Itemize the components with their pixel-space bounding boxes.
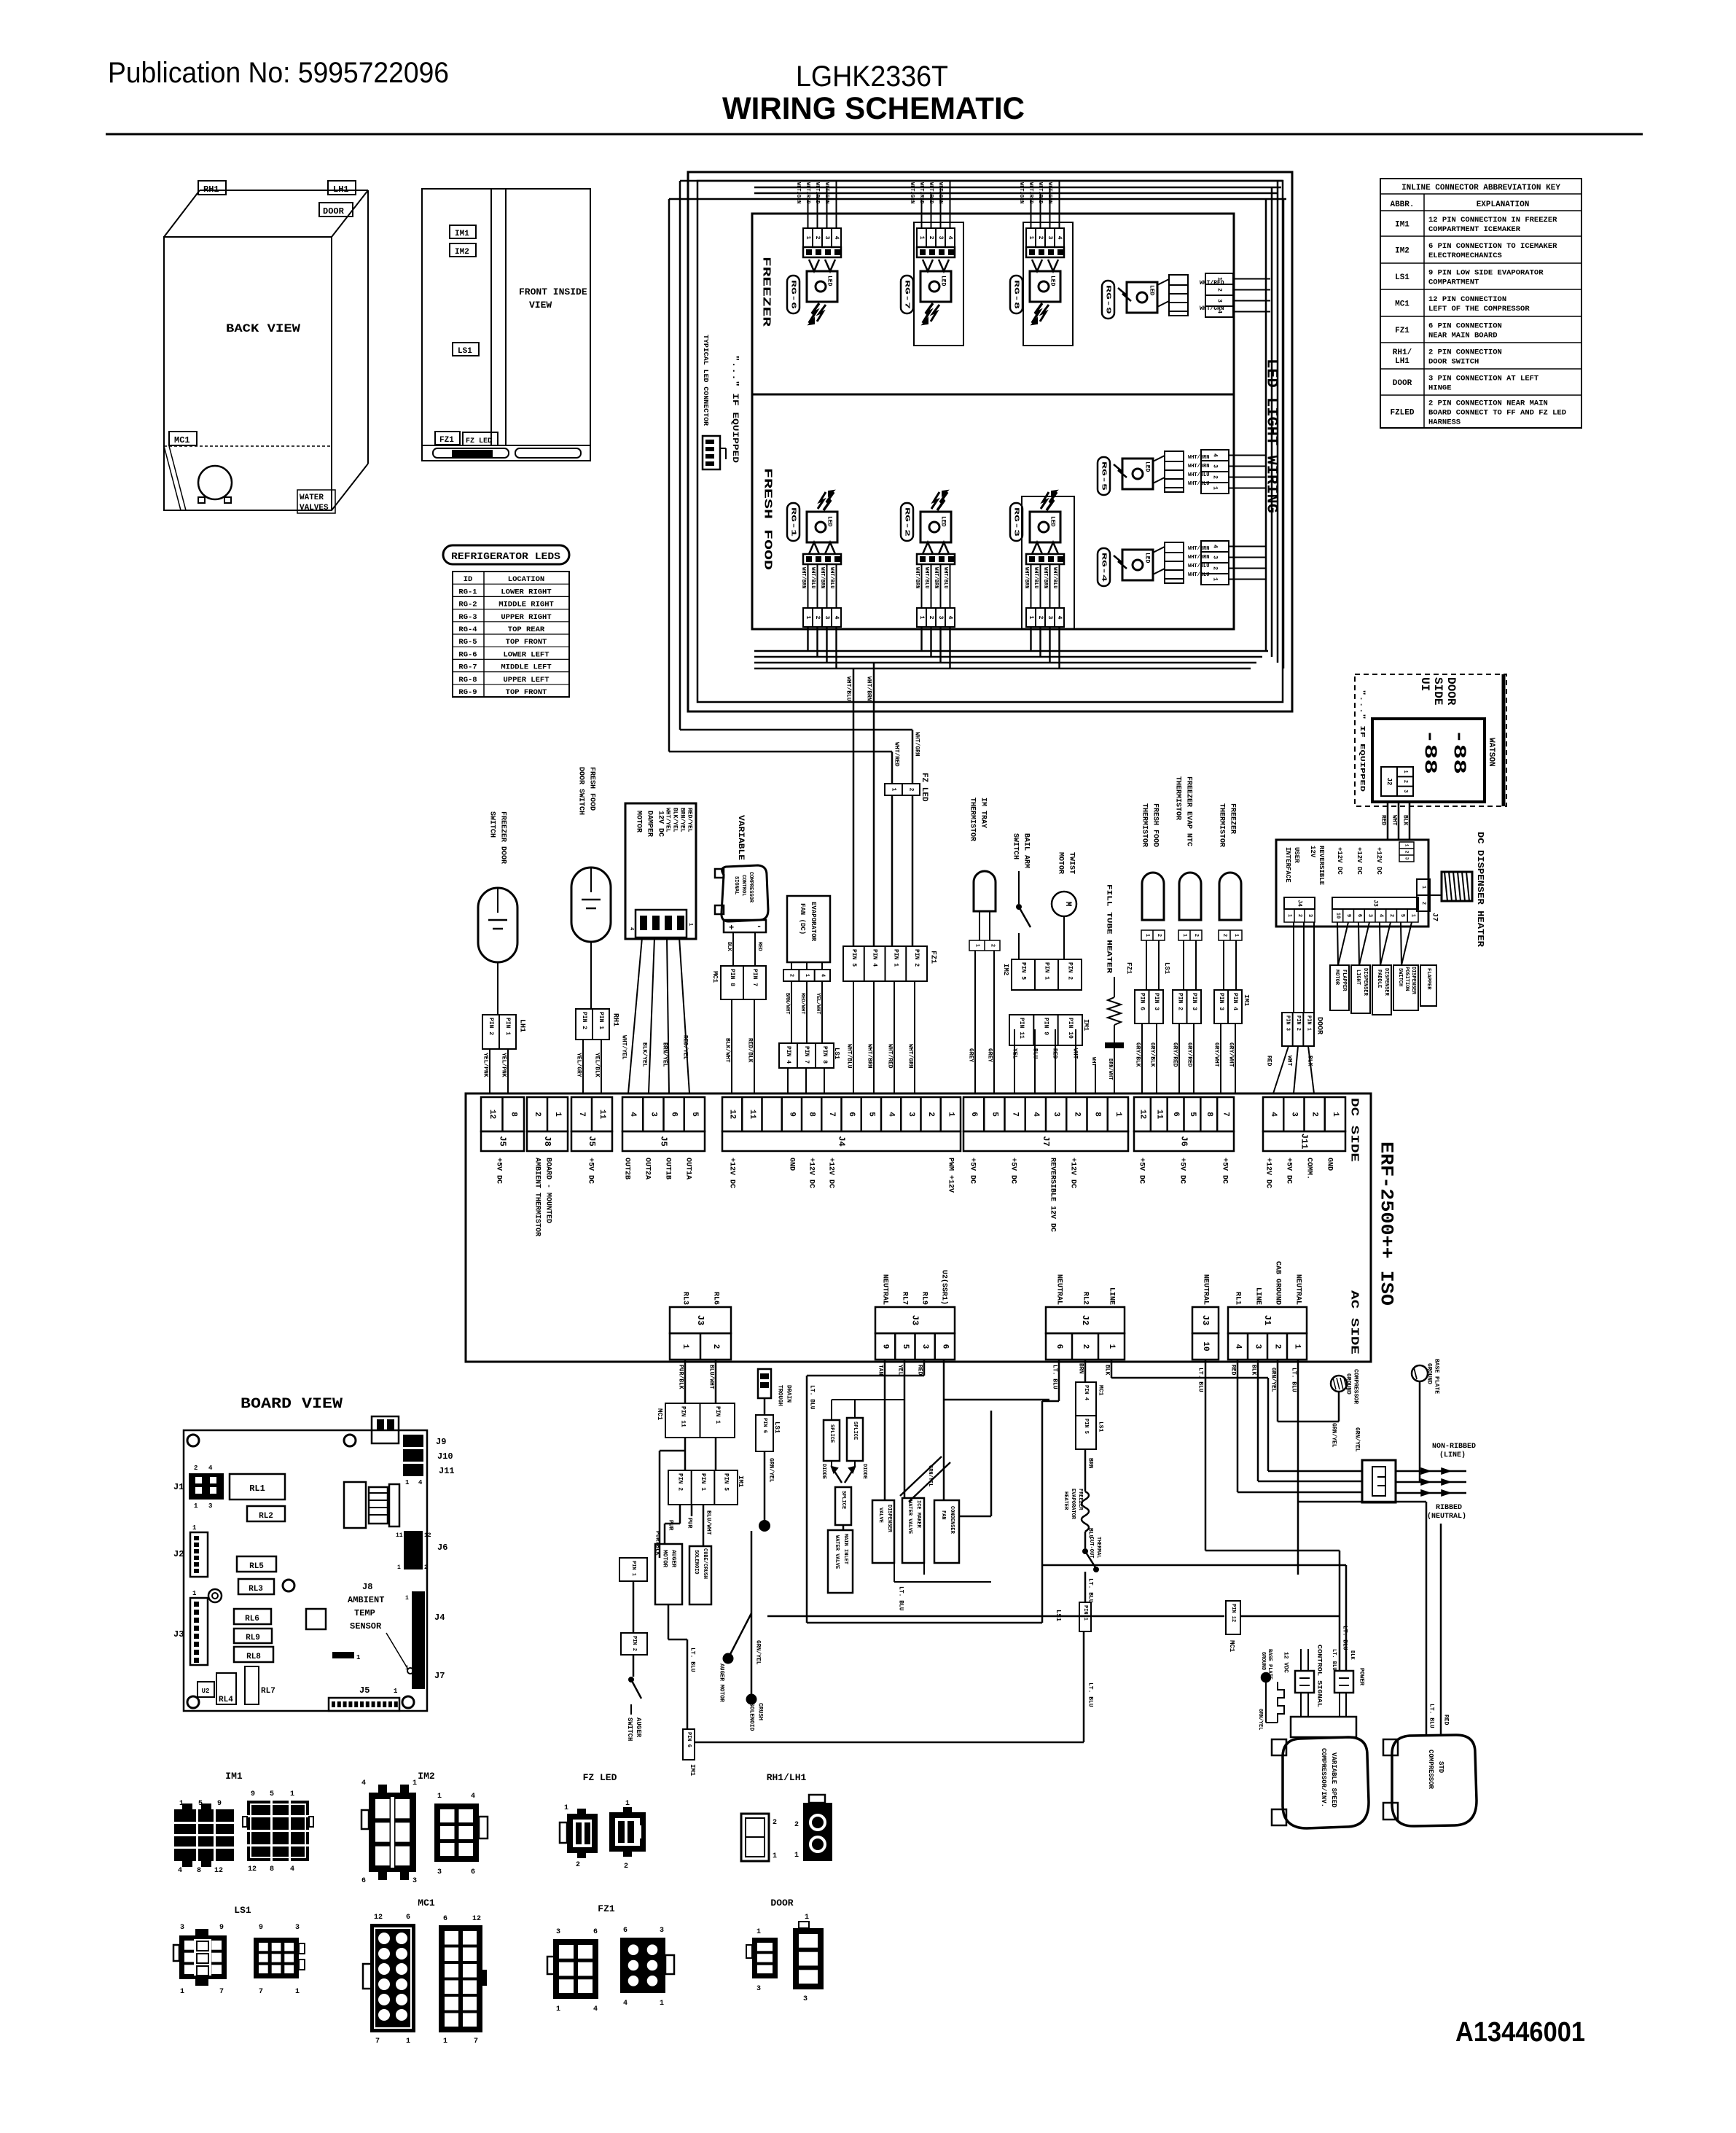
board J5 connector [329, 1698, 399, 1711]
svg-text:7: 7 [827, 1112, 836, 1117]
svg-text:NEUTRAL: NEUTRAL [881, 1274, 889, 1305]
led light wiring inner frame [697, 181, 1283, 702]
connector J3 (SSR) [875, 1307, 955, 1333]
svg-text:RL6: RL6 [245, 1615, 259, 1623]
compressor ground symbol [1331, 1376, 1347, 1392]
svg-text:8: 8 [270, 1865, 274, 1873]
evaporator fan box [787, 896, 830, 962]
svg-text:LS1: LS1 [234, 1905, 251, 1916]
svg-text:COMPARTMENT ICEMAKER: COMPARTMENT ICEMAKER [1428, 225, 1521, 234]
svg-text:BLK: BLK [1307, 1056, 1313, 1066]
led wiring bottom bundle [754, 650, 1268, 652]
svg-text:NEUTRAL: NEUTRAL [1294, 1274, 1302, 1305]
main board outline [466, 1093, 1371, 1362]
svg-text:SIGNAL: SIGNAL [733, 876, 739, 894]
board relay RL1 [230, 1474, 285, 1500]
svg-text:+5V DC: +5V DC [1221, 1158, 1229, 1184]
svg-text:1: 1 [556, 2005, 560, 2013]
svg-text:DISPENSER: DISPENSER [886, 1505, 892, 1533]
svg-text:WATSON: WATSON [1487, 738, 1495, 767]
svg-text:HINGE: HINGE [1428, 384, 1452, 393]
label FZ1 [435, 432, 460, 445]
variable compressor control assembly [1262, 1673, 1270, 1682]
connector J6 [1134, 1097, 1234, 1131]
svg-text:PIN 1: PIN 1 [892, 949, 899, 967]
pinout MC1 socket [439, 1925, 482, 2032]
svg-text:2: 2 [1072, 1112, 1081, 1117]
svg-text:COMM.: COMM. [1305, 1158, 1313, 1179]
svg-text:RG-6: RG-6 [458, 650, 477, 659]
svg-text:6 PIN CONNECTION TO ICEMAKER: 6 PIN CONNECTION TO ICEMAKER [1428, 242, 1557, 251]
svg-text:WHT/GRN: WHT/GRN [937, 182, 943, 203]
svg-text:NEUTRAL: NEUTRAL [1055, 1274, 1063, 1305]
svg-text:"..." IF EQUIPPED: "..." IF EQUIPPED [1358, 690, 1366, 792]
svg-text:3: 3 [920, 1344, 929, 1349]
svg-text:COMPRESSOR: COMPRESSOR [1427, 1750, 1434, 1790]
svg-text:9: 9 [1345, 914, 1351, 917]
door side ui dashed box [1355, 674, 1506, 806]
svg-text:AUGER: AUGER [635, 1717, 642, 1738]
svg-text:J5: J5 [587, 1136, 597, 1146]
svg-text:DOOR: DOOR [1315, 1017, 1323, 1034]
svg-text:RG-2: RG-2 [904, 507, 911, 537]
svg-text:OUT2B: OUT2B [623, 1158, 631, 1179]
pin 2 box auger switch [621, 1633, 647, 1655]
pinout LS1 socket [254, 1938, 299, 1978]
svg-text:MOTOR: MOTOR [1334, 970, 1340, 986]
svg-text:PIN 1: PIN 1 [504, 1018, 511, 1035]
damper motor box [625, 803, 696, 939]
svg-text:TROUGH: TROUGH [777, 1385, 783, 1406]
svg-text:3: 3 [803, 1995, 808, 2003]
svg-text:2: 2 [814, 616, 821, 620]
svg-text:WHT/GRN: WHT/GRN [909, 182, 915, 203]
condenser fan [934, 1500, 959, 1563]
svg-text:WHT/BRN: WHT/BRN [1188, 464, 1209, 469]
svg-text:WHT/BLU: WHT/BLU [923, 567, 929, 588]
svg-text:RG-9: RG-9 [458, 688, 477, 697]
svg-text:FZ1: FZ1 [1125, 962, 1133, 975]
svg-text:RED: RED [756, 942, 762, 951]
svg-text:RED: RED [1230, 1365, 1237, 1376]
svg-text:1: 1 [1286, 914, 1292, 917]
svg-text:2: 2 [711, 1344, 720, 1349]
svg-text:POSITION: POSITION [1404, 967, 1409, 991]
dispenser valve [872, 1500, 894, 1563]
svg-text:BLK/WHT: BLK/WHT [724, 1038, 731, 1063]
label RG-3 [1010, 503, 1023, 541]
svg-text:VARIABLE: VARIABLE [736, 815, 745, 860]
svg-text:BACK VIEW: BACK VIEW [226, 322, 300, 335]
svg-text:J9: J9 [436, 1437, 446, 1447]
svg-text:WHT: WHT [1286, 1056, 1293, 1066]
board U2 [198, 1682, 214, 1697]
svg-text:MOTOR: MOTOR [1057, 852, 1065, 874]
board J3 connector [190, 1598, 208, 1665]
svg-text:LT. BLU: LT. BLU [809, 1385, 816, 1410]
svg-text:PIN 1: PIN 1 [1082, 1605, 1088, 1621]
svg-text:+12V DC: +12V DC [1356, 847, 1363, 875]
board J4 J7 connector [412, 1591, 425, 1689]
svg-text:PIN 2: PIN 2 [1067, 962, 1074, 980]
svg-text:2: 2 [576, 1861, 580, 1869]
svg-text:4: 4 [947, 236, 953, 240]
board mount holes [187, 1435, 199, 1446]
svg-text:POWER: POWER [1358, 1668, 1365, 1685]
led module RG-2 wires [921, 564, 923, 608]
svg-text:J6: J6 [437, 1543, 447, 1553]
svg-text:2: 2 [789, 974, 794, 977]
label RG-7 [901, 276, 913, 313]
svg-text:BLK: BLK [1402, 815, 1409, 826]
svg-text:SWITCH: SWITCH [1012, 833, 1020, 859]
svg-text:PIN 11: PIN 11 [679, 1406, 686, 1427]
svg-text:1: 1 [681, 1344, 689, 1349]
svg-text:EVAPORATOR: EVAPORATOR [1070, 1489, 1076, 1520]
svg-text:J7: J7 [434, 1671, 445, 1681]
svg-text:BOARD - MOUNTED: BOARD - MOUNTED [544, 1158, 552, 1223]
svg-text:3: 3 [1402, 789, 1408, 792]
svg-text:PIN 4: PIN 4 [872, 949, 878, 967]
svg-text:11: 11 [1154, 1110, 1163, 1120]
svg-text:+5V DC: +5V DC [1178, 1158, 1186, 1184]
svg-text:AUGER: AUGER [670, 1550, 677, 1567]
main inlet water valve [828, 1530, 853, 1593]
svg-text:1: 1 [1233, 934, 1239, 937]
svg-text:BOARD VIEW: BOARD VIEW [241, 1396, 343, 1413]
pinout RH1/LH1 plug [741, 1814, 769, 1861]
svg-text:IM2: IM2 [455, 248, 469, 257]
svg-text:PIN 7: PIN 7 [803, 1046, 810, 1064]
svg-text:3: 3 [1404, 857, 1409, 860]
pinout LS1 plug [179, 1935, 227, 1979]
svg-text:+5V DC: +5V DC [969, 1158, 977, 1184]
svg-text:3: 3 [660, 1927, 664, 1935]
svg-text:RH1: RH1 [611, 1013, 619, 1026]
svg-text:2: 2 [1273, 1344, 1282, 1349]
svg-text:M: M [1063, 902, 1072, 907]
svg-text:2: 2 [1310, 1112, 1319, 1117]
svg-text:YEL/WHT: YEL/WHT [815, 993, 821, 1014]
svg-text:PIN 4: PIN 4 [1083, 1385, 1089, 1400]
svg-text:J11: J11 [1299, 1134, 1310, 1150]
svg-text:WHT/YEL: WHT/YEL [665, 808, 671, 832]
svg-text:WHT: WHT [1391, 815, 1398, 826]
svg-text:2: 2 [1156, 934, 1162, 937]
header rule [106, 133, 1643, 136]
connector J7 [963, 1097, 1128, 1131]
svg-text:PIN 4: PIN 4 [1232, 993, 1238, 1010]
pin 12 mc1 inline [767, 1615, 1224, 1618]
svg-text:IM2: IM2 [418, 1771, 435, 1782]
svg-text:1: 1 [295, 1988, 300, 1996]
variable speed compressor [1283, 1737, 1369, 1828]
flapper assembly wires [1337, 922, 1338, 965]
led module RG-5 body [1122, 459, 1153, 489]
svg-text:7: 7 [474, 2038, 478, 2046]
svg-text:NEUTRAL: NEUTRAL [1202, 1274, 1210, 1305]
svg-text:WHT/RED: WHT/RED [805, 182, 810, 203]
svg-text:DAMPER: DAMPER [646, 811, 654, 837]
wires fz led to fz1 [891, 795, 894, 946]
svg-text:PIN 2: PIN 2 [913, 949, 920, 967]
connector J5 (second) [571, 1097, 612, 1131]
svg-text:1: 1 [413, 1779, 417, 1787]
led module RG-3 body [1030, 512, 1060, 542]
svg-text:YEL/GRY: YEL/GRY [576, 1053, 582, 1077]
svg-text:LINE: LINE [1108, 1287, 1116, 1305]
led module RG-1 wires [808, 564, 809, 608]
svg-text:PWM +12V: PWM +12V [947, 1158, 955, 1193]
svg-text:3: 3 [649, 1112, 657, 1117]
svg-text:RG-6: RG-6 [790, 280, 797, 309]
svg-text:5: 5 [198, 1800, 203, 1808]
damper motor wires [628, 937, 642, 1093]
svg-text:1: 1 [1331, 1112, 1340, 1117]
typical led connector symbol [703, 436, 720, 469]
svg-text:1: 1 [660, 2000, 664, 2008]
svg-text:DOOR: DOOR [323, 206, 345, 217]
svg-text:+5V DC: +5V DC [587, 1158, 595, 1184]
svg-text:FREEZER DOOR: FREEZER DOOR [499, 811, 507, 864]
svg-text:MOTOR: MOTOR [635, 811, 643, 832]
led wiring bottom wrap wires [669, 751, 892, 753]
svg-text:ABBR.: ABBR. [1390, 200, 1414, 209]
svg-text:2: 2 [928, 616, 934, 620]
svg-text:WHT/RED: WHT/RED [814, 182, 820, 203]
svg-text:USER: USER [1293, 847, 1300, 863]
svg-text:2: 2 [1037, 236, 1044, 240]
svg-text:RG-8: RG-8 [458, 676, 477, 685]
svg-text:RL7: RL7 [901, 1292, 909, 1305]
svg-text:7: 7 [259, 1988, 263, 1996]
svg-text:+: + [729, 923, 734, 933]
svg-text:SWITCH: SWITCH [1397, 968, 1403, 986]
led module RG-6 connector [803, 228, 841, 247]
svg-text:RL3: RL3 [249, 1585, 263, 1594]
svg-text:WHT/GRN: WHT/GRN [1018, 182, 1024, 203]
svg-text:6: 6 [361, 1877, 366, 1885]
svg-text:J10: J10 [437, 1451, 453, 1462]
label RG-5 [1098, 457, 1110, 495]
svg-text:J8: J8 [542, 1136, 552, 1146]
svg-text:1: 1 [192, 1524, 197, 1532]
svg-text:12: 12 [248, 1865, 257, 1873]
flapper motor box [1330, 965, 1349, 1010]
svg-text:PIN 10: PIN 10 [1067, 1018, 1074, 1039]
svg-text:12V DC: 12V DC [657, 811, 665, 837]
svg-text:5: 5 [690, 1112, 699, 1117]
svg-text:THERMAL: THERMAL [1095, 1537, 1101, 1558]
svg-text:1: 1 [756, 1928, 761, 1936]
connector J8 [527, 1097, 568, 1131]
connector J4 [722, 1097, 961, 1131]
svg-text:RG-4: RG-4 [458, 625, 477, 634]
svg-text:FRESH FOOD: FRESH FOOD [1152, 803, 1160, 847]
svg-text:GND: GND [788, 1158, 796, 1171]
svg-text:WHT/RED: WHT/RED [1037, 182, 1043, 203]
svg-text:-88: -88 [1420, 729, 1439, 774]
svg-text:MAIN INLET: MAIN INLET [842, 1534, 848, 1564]
svg-text:BRN: BRN [1078, 1363, 1084, 1374]
svg-text:YEL: YEL [897, 1365, 904, 1376]
svg-text:MC1: MC1 [1228, 1640, 1235, 1653]
svg-text:TAN: TAN [877, 1365, 884, 1376]
svg-text:MC1: MC1 [418, 1898, 435, 1908]
refrigerator leds table [453, 572, 569, 697]
led module RG-5 block [1201, 450, 1229, 494]
svg-text:RED: RED [1380, 815, 1387, 826]
svg-text:1: 1 [1402, 771, 1408, 773]
svg-text:LS1: LS1 [773, 1422, 781, 1434]
svg-text:GROUND: GROUND [1260, 1652, 1266, 1670]
svg-text:WIRING SCHEMATIC: WIRING SCHEMATIC [722, 91, 1025, 126]
svg-text:1: 1 [804, 974, 810, 977]
svg-text:AC SIDE: AC SIDE [1348, 1290, 1361, 1354]
svg-text:LED: LED [940, 276, 947, 286]
svg-text:BLK: BLK [726, 942, 732, 951]
cube crush solenoid box [689, 1546, 711, 1604]
svg-text:WHT/BRN: WHT/BRN [1042, 567, 1048, 588]
svg-text:PUR: PUR [668, 1520, 674, 1531]
svg-text:HARNESS: HARNESS [1428, 418, 1461, 427]
svg-text:2: 2 [926, 1112, 935, 1117]
svg-text:LT. BLU: LT. BLU [1291, 1368, 1297, 1392]
connector J2 [1046, 1307, 1125, 1333]
svg-text:SPLICE: SPLICE [829, 1424, 834, 1443]
svg-text:2: 2 [1420, 902, 1426, 905]
svg-text:MIDDLE RIGHT: MIDDLE RIGHT [498, 601, 554, 609]
board J2 connector [190, 1532, 208, 1577]
svg-text:GRY/RED: GRY/RED [1172, 1042, 1178, 1067]
svg-text:FREEZER: FREEZER [760, 257, 773, 327]
svg-text:DOOR: DOOR [770, 1898, 793, 1908]
pinout DOOR plug [752, 1938, 778, 1978]
svg-text:CUT-OUT: CUT-OUT [1088, 1537, 1094, 1558]
svg-text:2: 2 [1212, 566, 1219, 570]
svg-text:WHT/BLU: WHT/BLU [1033, 567, 1039, 588]
svg-text:CONDENSER: CONDENSER [949, 1506, 955, 1535]
svg-text:8: 8 [509, 1112, 517, 1117]
svg-text:2: 2 [1404, 851, 1409, 854]
svg-text:1: 1 [1028, 616, 1034, 620]
svg-text:1: 1 [394, 1688, 398, 1695]
svg-text:1: 1 [564, 1804, 568, 1812]
dispenser position switch box [1393, 965, 1418, 1010]
svg-text:2: 2 [624, 1863, 628, 1871]
board relay RL3 [238, 1579, 274, 1594]
svg-text:J1: J1 [1262, 1315, 1272, 1325]
wires J2 group [1058, 1360, 1060, 1401]
svg-text:1: 1 [918, 616, 925, 620]
board J6 connector [404, 1531, 423, 1569]
svg-text:1: 1 [1212, 486, 1219, 490]
svg-text:3: 3 [437, 1868, 442, 1876]
svg-text:RL3: RL3 [681, 1292, 689, 1305]
led module RG-7 body [917, 247, 955, 257]
led module RG-2 lightning [937, 492, 947, 510]
front inside view box [422, 189, 590, 461]
svg-text:3: 3 [208, 1502, 212, 1510]
power cord plug [1362, 1460, 1396, 1502]
svg-text:WHT/BLU: WHT/BLU [846, 1044, 853, 1069]
svg-text:UI: UI [1418, 677, 1431, 691]
svg-text:GRY/BLK: GRY/BLK [1135, 1042, 1141, 1067]
svg-text:PIN 9: PIN 9 [1043, 1018, 1049, 1035]
svg-text:GRN/YEL: GRN/YEL [768, 1458, 775, 1483]
svg-text:WHT/GRN: WHT/GRN [914, 732, 920, 757]
svg-text:9: 9 [219, 1924, 224, 1932]
svg-text:PIN 1: PIN 1 [700, 1473, 706, 1491]
svg-text:PUR: PUR [687, 1518, 693, 1529]
svg-text:3: 3 [1289, 1112, 1298, 1117]
svg-text:4: 4 [833, 236, 840, 240]
evaporator fan ls1 pins [779, 1043, 834, 1068]
svg-text:REFRIGERATOR LEDS: REFRIGERATOR LEDS [451, 551, 560, 563]
svg-text:-88: -88 [1449, 729, 1469, 774]
svg-text:12 PIN CONNECTION: 12 PIN CONNECTION [1428, 295, 1506, 304]
svg-text:DISPENSER: DISPENSER [1410, 967, 1416, 995]
svg-text:3: 3 [1307, 914, 1313, 917]
svg-text:J1: J1 [173, 1482, 184, 1492]
svg-text:MC1: MC1 [1098, 1385, 1104, 1396]
svg-text:12: 12 [1138, 1110, 1146, 1119]
svg-text:PIN 2: PIN 2 [488, 1018, 494, 1035]
wires led box to fz led [853, 668, 855, 946]
svg-text:LED: LED [1149, 285, 1155, 296]
svg-text:WHT/BLU: WHT/BLU [942, 567, 948, 588]
user interface top cells [1399, 842, 1414, 862]
led module RG-9 lightning [1118, 288, 1131, 301]
svg-text:ELECTROMECHANICS: ELECTROMECHANICS [1428, 251, 1502, 260]
svg-text:7: 7 [375, 2038, 380, 2046]
svg-text:PIN 6: PIN 6 [686, 1732, 692, 1747]
svg-text:J7: J7 [1041, 1136, 1051, 1146]
led module RG-3 lightning [1047, 492, 1057, 510]
svg-text:FAN (DC): FAN (DC) [799, 903, 806, 935]
svg-text:+12V DC: +12V DC [1375, 847, 1383, 875]
svg-text:LS1: LS1 [1163, 962, 1170, 975]
svg-text:J4: J4 [434, 1613, 445, 1623]
svg-text:FZ1: FZ1 [929, 951, 937, 964]
svg-text:RL2: RL2 [259, 1512, 273, 1521]
pinout IM2 socket [434, 1804, 479, 1862]
svg-text:4: 4 [1056, 236, 1063, 240]
svg-text:2: 2 [1081, 1344, 1090, 1349]
svg-text:GRN/YEL: GRN/YEL [1354, 1427, 1361, 1452]
svg-text:1: 1 [192, 1590, 197, 1597]
svg-text:LGHK2336T: LGHK2336T [796, 61, 948, 93]
connector J3 (neutral) [1192, 1307, 1219, 1333]
svg-text:8: 8 [808, 1112, 816, 1117]
door ui J2 connector [1381, 767, 1397, 796]
svg-text:LED: LED [826, 276, 833, 286]
svg-text:2: 2 [1212, 475, 1219, 479]
svg-text:J5: J5 [359, 1685, 370, 1696]
svg-text:4: 4 [418, 1479, 423, 1486]
svg-text:WHT/BLU: WHT/BLU [1052, 567, 1057, 588]
svg-text:4: 4 [628, 927, 634, 930]
svg-text:J4: J4 [1297, 900, 1303, 907]
svg-text:3: 3 [295, 1924, 300, 1932]
svg-text:UPPER RIGHT: UPPER RIGHT [501, 613, 551, 622]
svg-text:J2: J2 [173, 1549, 184, 1559]
board J9 J10 J11 connectors [403, 1435, 423, 1447]
svg-text:DC DISPENSER HEATER: DC DISPENSER HEATER [1475, 832, 1485, 948]
svg-text:DOOR SWITCH: DOOR SWITCH [577, 767, 585, 815]
svg-text:8: 8 [1093, 1112, 1102, 1117]
svg-text:LT. BLU: LT. BLU [1087, 1682, 1094, 1707]
